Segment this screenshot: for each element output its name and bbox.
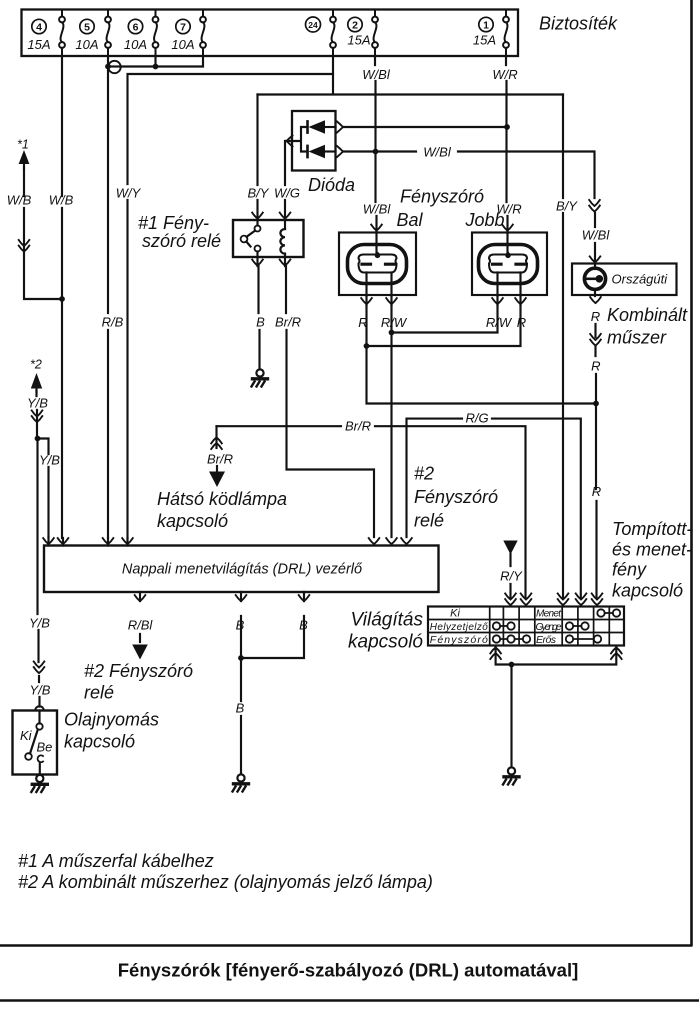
svg-text:Jobb: Jobb — [464, 210, 504, 230]
svg-text:W/Bl: W/Bl — [362, 67, 391, 82]
svg-text:#1 Fény-: #1 Fény- — [138, 213, 209, 233]
svg-text:B/Y: B/Y — [556, 199, 578, 214]
svg-text:kapcsoló: kapcsoló — [157, 511, 228, 531]
diode left arrow — [287, 136, 293, 147]
svg-text:6: 6 — [133, 22, 139, 34]
wire W/G diode to relay — [284, 141, 286, 219]
relay switch contact top — [256, 220, 258, 226]
svg-text:W/Bl: W/Bl — [582, 228, 611, 243]
connector loop on tie wire — [108, 61, 120, 73]
light switch table — [428, 607, 624, 646]
svg-text:Fényszóró: Fényszóró — [430, 634, 488, 646]
DRL controller box — [44, 546, 439, 593]
fuse F7 10A — [200, 10, 206, 57]
right headlight filament — [489, 255, 527, 273]
svg-text:Y/B: Y/B — [29, 616, 50, 631]
svg-text:10A: 10A — [75, 37, 98, 52]
fuse F6 10A — [153, 10, 159, 57]
wire branch *1 W/B — [24, 168, 62, 299]
svg-text:#2 A kombinált műszerhez (olaj: #2 A kombinált műszerhez (olajnyomás jel… — [18, 872, 433, 892]
svg-text:R/Y: R/Y — [500, 569, 523, 584]
svg-text:R: R — [591, 309, 600, 324]
relay B pin to ground — [258, 257, 260, 368]
svg-text:R/W: R/W — [486, 315, 513, 330]
ground below B wire — [233, 774, 249, 791]
left headlight exit connectors — [361, 298, 372, 304]
wire Y/B from *2 — [35, 391, 38, 438]
wire W/Y from fuse24 — [128, 56, 334, 538]
diode block box — [292, 111, 336, 171]
R/Y feed arrow — [503, 541, 517, 555]
svg-text:B: B — [299, 618, 308, 633]
fuse F4 15A — [59, 10, 65, 57]
svg-text:W/B: W/B — [49, 193, 74, 208]
svg-text:Nappali menetvilágítás (DRL) v: Nappali menetvilágítás (DRL) vezérlő — [122, 562, 363, 578]
svg-text:2: 2 — [352, 20, 358, 32]
wire R/G — [407, 419, 581, 598]
svg-text:Fényszóró: Fényszóró — [414, 487, 498, 507]
wire B/Y rail from fuse24 — [258, 74, 564, 95]
relay coil — [284, 220, 286, 229]
table contacts row Ki/Menet — [597, 609, 604, 616]
fog lamp stub connector — [215, 426, 217, 448]
junction dot below table — [509, 662, 515, 668]
wire Y/B main down to oil switch — [38, 439, 40, 707]
wire R/W down to DRL — [390, 333, 392, 538]
svg-text:Y/B: Y/B — [39, 453, 60, 468]
svg-text:B: B — [236, 701, 245, 716]
junction dot B — [238, 655, 244, 661]
oil switch top bump — [35, 706, 44, 710]
DRL output R/Bl — [139, 592, 141, 642]
svg-text:Olajnyomás: Olajnyomás — [64, 710, 159, 730]
svg-text:B: B — [256, 315, 265, 330]
frame bottom line 1 — [1, 944, 691, 947]
svg-text:Helyzetjelző: Helyzetjelző — [430, 622, 488, 633]
fuse box Biztosíték — [22, 10, 519, 57]
R/Bl arrow to relay2 — [132, 645, 148, 660]
svg-text:R/B: R/B — [102, 315, 124, 330]
DRL output B left — [240, 592, 242, 658]
svg-text:4: 4 — [36, 22, 42, 34]
wire B to ground — [240, 658, 242, 773]
wire W/R fuse1 to right headlight — [506, 56, 508, 232]
svg-text:10A: 10A — [124, 37, 147, 52]
svg-text:kapcsoló: kapcsoló — [348, 632, 423, 653]
svg-text:Ki: Ki — [450, 608, 460, 620]
svg-text:műszer: műszer — [607, 328, 667, 348]
wire R below Országúti — [595, 264, 597, 599]
svg-text:és menet-: és menet- — [612, 540, 692, 560]
svg-text:24: 24 — [308, 20, 318, 30]
table contacts row Fényszóró — [493, 635, 500, 642]
frame bottom line 2 — [0, 999, 699, 1002]
wire R/B fuse5 down to DRL — [107, 56, 109, 538]
svg-text:7: 7 — [180, 22, 186, 34]
fuse F24 — [330, 10, 336, 57]
svg-text:relé: relé — [84, 683, 114, 703]
diode D1 — [306, 121, 309, 132]
Országúti lamp box — [572, 264, 677, 296]
svg-text:Y/B: Y/B — [30, 683, 51, 698]
svg-text:W/Y: W/Y — [116, 186, 142, 201]
svg-text:Ki: Ki — [20, 728, 33, 743]
svg-text:W/Bl: W/Bl — [423, 145, 452, 160]
svg-text:Biztosíték: Biztosíték — [539, 14, 618, 34]
right headlight exit connectors — [492, 298, 503, 304]
left headlight bulb — [348, 245, 407, 284]
junction dot W/R diode line — [504, 124, 510, 130]
svg-text:fény: fény — [612, 560, 647, 580]
fuse F2 15A — [372, 10, 378, 57]
wire W/Bl fuse2 to left headlight — [375, 56, 377, 232]
svg-text:Bal: Bal — [396, 210, 423, 230]
lamp symbol — [584, 268, 605, 289]
svg-text:Kombinált: Kombinált — [607, 305, 688, 325]
svg-text:W/G: W/G — [274, 186, 300, 201]
left headlight filament — [359, 255, 397, 273]
svg-text:5: 5 — [84, 22, 90, 34]
arrow *2 — [31, 373, 42, 389]
DRL entry connectors left — [49, 537, 128, 546]
svg-text:#1 A műszerfal kábelhez: #1 A műszerfal kábelhez — [18, 851, 214, 871]
relay U1 #1 Fényszóró relé box — [233, 220, 304, 257]
svg-text:15A: 15A — [347, 33, 370, 48]
svg-text:W/R: W/R — [492, 67, 517, 82]
svg-text:Országúti: Országúti — [612, 271, 669, 286]
svg-text:*1: *1 — [17, 138, 29, 152]
wire diode top output to W/R — [343, 126, 507, 128]
svg-text:Fényszórók [fényerő-szabályozó: Fényszórók [fényerő-szabályozó (DRL) aut… — [118, 960, 579, 981]
right headlight bulb — [479, 245, 538, 284]
junction dot W/Bl diode line — [373, 149, 379, 155]
svg-text:10A: 10A — [171, 37, 194, 52]
ground below light switch — [503, 767, 519, 784]
svg-text:R: R — [592, 484, 601, 499]
oil pressure switch box — [13, 711, 58, 775]
svg-text:W/Bl: W/Bl — [363, 202, 392, 217]
table bottom exits — [496, 646, 617, 665]
svg-text:15A: 15A — [473, 33, 496, 48]
DRL output B right — [241, 592, 304, 658]
wire R/W tie between headlights — [392, 305, 498, 333]
svg-text:W/B: W/B — [7, 193, 32, 208]
wire to ground below table — [510, 665, 512, 767]
junction dot Y/B — [35, 436, 41, 442]
right headlight box Jobb — [472, 233, 547, 296]
diode output arrow bottom — [337, 146, 343, 157]
svg-text:Gyenge: Gyenge — [536, 622, 562, 633]
wire W/Bl diode output to Országúti — [343, 152, 595, 264]
frame right border — [690, 0, 693, 945]
left headlight box Bal — [339, 233, 416, 296]
wire Y/B branch to DRL — [38, 439, 49, 538]
wire R tie between headlights — [367, 305, 521, 346]
svg-text:Fényszóró: Fényszóró — [400, 187, 484, 207]
relay switch contact bottom — [255, 246, 261, 252]
svg-text:R/Bl: R/Bl — [128, 618, 154, 633]
diode D2 — [306, 146, 309, 157]
svg-text:Tompított-: Tompított- — [612, 519, 692, 539]
svg-text:kapcsoló: kapcsoló — [64, 732, 135, 752]
svg-text:R: R — [358, 315, 367, 330]
svg-text:R/W: R/W — [381, 315, 408, 330]
relay switch arm — [247, 231, 256, 237]
svg-text:Menet: Menet — [536, 609, 562, 620]
svg-text:relé: relé — [414, 511, 444, 531]
svg-text:R: R — [517, 315, 526, 330]
svg-text:Világítás: Világítás — [350, 610, 423, 631]
svg-text:kapcsoló: kapcsoló — [612, 581, 683, 601]
oil switch contacts — [38, 711, 40, 724]
table contacts row Helyzetjelző — [493, 622, 500, 629]
svg-text:Br/R: Br/R — [345, 419, 371, 434]
fuse F5 10A — [105, 10, 111, 57]
fog lamp arrow — [216, 466, 218, 472]
svg-text:15A: 15A — [27, 37, 50, 52]
diode cathode link — [286, 127, 308, 152]
svg-text:Y/B: Y/B — [27, 396, 48, 411]
svg-text:R/G: R/G — [465, 411, 488, 426]
ground below relay — [252, 369, 268, 386]
wire tie fuses 5-6-7 — [108, 56, 203, 67]
junction dot W/B — [59, 296, 65, 302]
svg-text:Be: Be — [37, 740, 53, 755]
wire B/Y drop to relay — [256, 95, 258, 220]
svg-text:Hátsó ködlámpa: Hátsó ködlámpa — [157, 489, 287, 509]
svg-text:#2 Fényszóró: #2 Fényszóró — [84, 661, 193, 681]
ground below oil switch — [31, 775, 47, 792]
wire Br/R fog lamp line — [217, 426, 526, 598]
wire R from headlights to kombinált R line — [367, 346, 598, 404]
wire B/Y right drop to light switch — [562, 95, 564, 599]
junction dot R line — [593, 401, 599, 407]
wire W/B fuse4 down to DRL — [61, 56, 63, 538]
svg-text:Erős: Erős — [536, 634, 557, 646]
svg-text:Dióda: Dióda — [308, 175, 355, 195]
svg-text:Br/R: Br/R — [207, 452, 233, 467]
svg-text:1: 1 — [483, 20, 489, 32]
svg-text:Br/R: Br/R — [275, 315, 301, 330]
svg-text:B: B — [236, 618, 245, 633]
svg-text:szóró relé: szóró relé — [142, 231, 221, 251]
connector on *1 branch — [19, 240, 30, 252]
svg-text:R: R — [591, 359, 600, 374]
fuse F1 15A — [503, 10, 509, 57]
svg-text:B/Y: B/Y — [248, 186, 270, 201]
relay Br/R pin down — [285, 257, 374, 537]
diode output arrow top — [337, 122, 343, 133]
arrow *1 — [19, 150, 30, 164]
svg-text:#2: #2 — [414, 464, 434, 484]
svg-text:*2: *2 — [30, 358, 42, 372]
